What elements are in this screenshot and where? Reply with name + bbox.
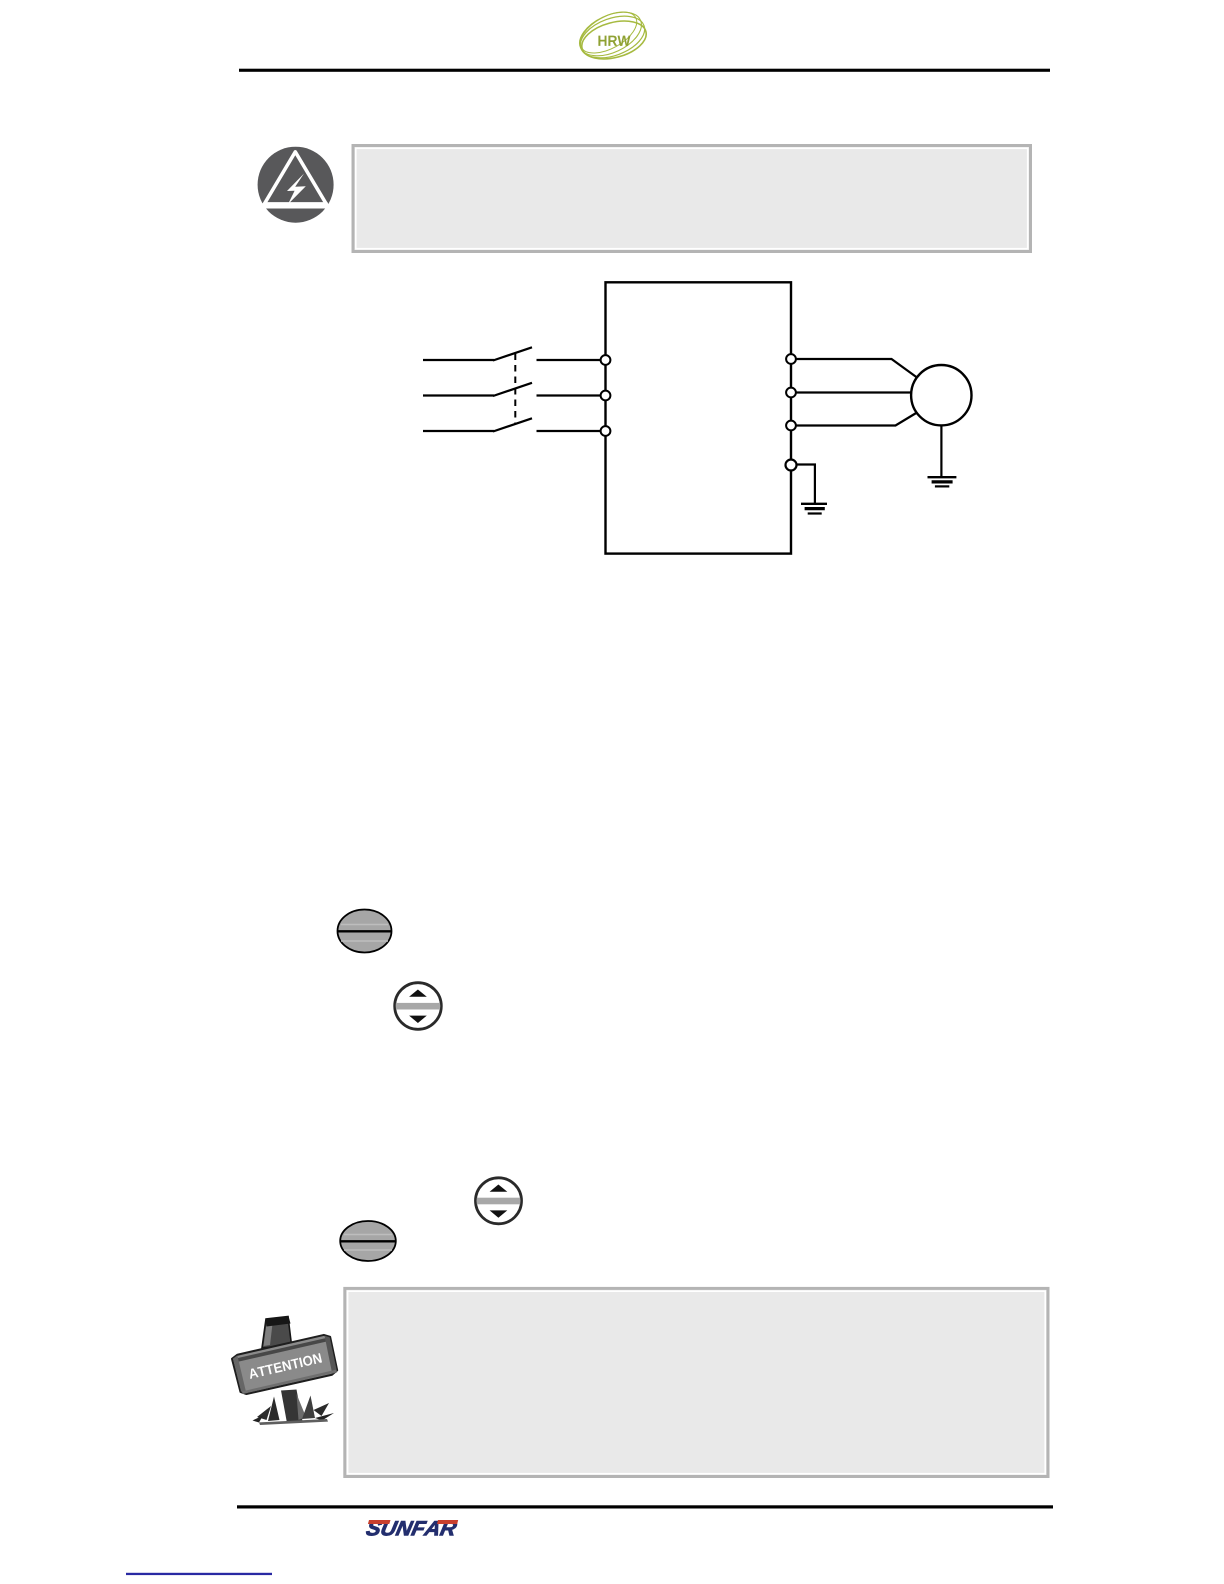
footer blue rule xyxy=(126,1573,272,1575)
wire output W xyxy=(796,413,917,426)
breaker link dashed xyxy=(514,354,516,425)
footer rule xyxy=(237,1505,1053,1508)
breaker blade 3 xyxy=(493,418,532,431)
note box 1 xyxy=(353,146,1031,252)
wire input S xyxy=(423,394,601,396)
input terminal 3 xyxy=(601,426,611,436)
output terminal 1 xyxy=(786,354,796,364)
HRW text xyxy=(598,36,630,46)
SUNFAR logo xyxy=(365,1521,457,1536)
ATTENTION text xyxy=(248,1353,322,1379)
motor M xyxy=(911,365,971,425)
wire output V xyxy=(796,391,912,393)
header rule xyxy=(239,69,1050,72)
attention sign post top xyxy=(262,1316,292,1348)
inverter box xyxy=(606,282,792,553)
breaker blade 1 xyxy=(493,347,532,360)
stop key ellipse xyxy=(340,1221,396,1261)
wire output U xyxy=(796,359,917,378)
output terminal 2 xyxy=(786,388,796,398)
motor ground xyxy=(928,477,957,486)
attention sign board xyxy=(231,1334,338,1396)
motor ground wire xyxy=(940,425,942,477)
input terminal 2 xyxy=(601,391,611,401)
high voltage warning icon xyxy=(258,147,334,223)
note box 2 xyxy=(345,1288,1048,1476)
wire input R xyxy=(423,359,601,361)
jog key ellipse xyxy=(338,910,392,953)
wire input T xyxy=(423,430,601,432)
input terminal 1 xyxy=(601,355,611,365)
PE wire xyxy=(797,465,815,504)
PE terminal xyxy=(786,460,797,471)
output terminal 3 xyxy=(786,421,796,431)
attention sign grass xyxy=(253,1396,335,1426)
breaker blade 2 xyxy=(493,383,532,396)
HRW logo xyxy=(573,3,651,66)
up-down key 1 xyxy=(394,983,442,1030)
up-down key 2 xyxy=(474,1178,523,1224)
PE ground xyxy=(801,504,827,514)
attention sign post bottom xyxy=(281,1390,306,1424)
